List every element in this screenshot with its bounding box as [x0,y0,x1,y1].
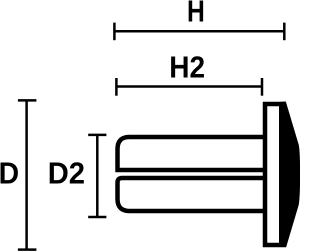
svg-text:D2: D2 [48,156,85,191]
svg-text:D: D [0,156,19,191]
svg-text:H2: H2 [169,50,205,85]
svg-text:H: H [187,0,205,29]
